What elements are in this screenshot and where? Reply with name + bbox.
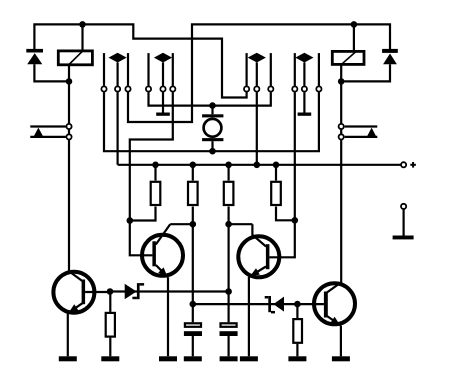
node junction dot H1 at C2 xyxy=(225,288,232,295)
relay K2 coil xyxy=(332,51,364,64)
pin terminal circle g1 middle xyxy=(115,86,120,91)
contact terminal circle left lower xyxy=(66,134,71,139)
wire left contact common down to transistor Q1 collector xyxy=(68,81,70,271)
pin terminal circle g4 left xyxy=(292,86,297,91)
resistor R4 xyxy=(271,165,295,221)
resistor R1 xyxy=(130,165,161,221)
wire diode D2 bottom to relay K2 bottom node xyxy=(341,64,390,81)
pin terminal circle g3 left xyxy=(244,86,249,91)
pin terminal circle g3 middle xyxy=(254,86,259,91)
diode D1 xyxy=(26,49,43,64)
resistor R6 xyxy=(293,304,302,356)
wire Q1 emitter to ground xyxy=(67,313,69,356)
node junction dot plus rail at pin g3-middle xyxy=(253,162,260,169)
capacitor C2 electrolytic xyxy=(220,292,238,357)
resistor R5 xyxy=(106,292,115,357)
connector group g3 pin right xyxy=(270,53,272,86)
node junction dot R1 to Q2 base line xyxy=(127,217,134,224)
pin terminal circle g4 middle xyxy=(302,86,307,91)
resistor R3 xyxy=(224,165,234,292)
node junction dot buzzer top xyxy=(209,102,216,109)
wire diode D1 bottom to relay K1 bottom node xyxy=(34,64,69,81)
wire Q4 emitter to ground xyxy=(340,326,342,357)
ground bar Q3 emitter xyxy=(240,356,258,361)
connector group g1 pin left xyxy=(103,53,105,86)
pin terminal circle g2 left xyxy=(146,86,151,91)
node junction dot at left rail x82.5 xyxy=(79,21,86,28)
pin terminal circle g2 right xyxy=(170,86,175,91)
pin terminal circle g4 right xyxy=(316,86,321,91)
node junction dot plus rail at R4 xyxy=(273,162,280,169)
zener diode D3 xyxy=(125,283,144,299)
connector group g3 pin left xyxy=(246,53,248,86)
left changeover contact lines with armature triangle xyxy=(30,127,65,137)
node junction dot relay K1 bottom xyxy=(66,78,73,85)
wire base line H2 from C1 through zener D4 to Q4 base xyxy=(193,303,324,305)
connector group g1 pin middle with diamond xyxy=(109,53,127,86)
pin terminal circle g1 right xyxy=(125,86,130,91)
termination bar under g4 xyxy=(298,113,312,116)
wire pin g2-right down around to transistor Q2 base xyxy=(130,92,173,255)
wire relay K1 bottom lead xyxy=(68,66,70,82)
relay K1 coil xyxy=(58,51,92,65)
connector group g3 pin middle with diamond xyxy=(248,53,266,86)
diode D2 xyxy=(382,49,398,64)
transistor Q3 xyxy=(238,224,279,277)
wire relay K2 bottom lead xyxy=(340,66,342,82)
wire pin g4-middle stub to termination bar xyxy=(303,92,305,112)
transistor Q2 xyxy=(142,224,183,277)
wire from pin g1-middle down to plus rail corner xyxy=(116,92,118,165)
wire Q3 emitter to ground xyxy=(248,277,250,356)
wire right contact common down to transistor Q4 collector xyxy=(340,81,342,282)
ground bar C1 xyxy=(184,356,202,361)
wire pin g2-middle stub to termination bar xyxy=(162,92,164,112)
node junction dot plus rail at R3 xyxy=(225,162,232,169)
node junction dot plus rail at R2 xyxy=(190,162,197,169)
connector group g2 pin right xyxy=(172,53,174,86)
wire base line H1 from Q1 base through zener D3 to capacitor C2 xyxy=(110,290,229,292)
connector group g1 pin right xyxy=(127,53,129,86)
wire Q3 collector to R3 xyxy=(229,223,253,225)
right changeover contact lines with armature triangle xyxy=(345,127,378,137)
wire pin g4-left down to transistor Q3 base xyxy=(269,92,294,257)
zener diode D4 xyxy=(265,296,284,313)
contact terminal circle left upper xyxy=(66,124,71,129)
wire Q2 emitter to ground xyxy=(167,277,169,356)
ground bar R5 xyxy=(101,356,119,361)
contact terminal circle right upper xyxy=(339,124,344,129)
wire from pin g1-left down and across to buzzer bottom and up to pin g4-right xyxy=(104,92,319,151)
wire relay K2 top feed xyxy=(353,24,355,50)
ground bar Q2 emitter xyxy=(159,356,177,361)
wire right top rail from pin g1-right up over to relay K2 and diode D2 xyxy=(128,24,390,122)
ground bar Q4 emitter xyxy=(332,356,350,361)
ground bar R6 xyxy=(288,356,306,361)
contact terminal circle right lower xyxy=(339,134,344,139)
connector group g4 pin middle with diamond xyxy=(295,53,313,86)
node junction dot R3 collector Q3 xyxy=(225,221,232,228)
wire Q2 collector to R2 xyxy=(170,223,193,225)
label plus sign xyxy=(410,162,416,168)
capacitor C1 electrolytic xyxy=(184,304,202,356)
terminal plus output circle xyxy=(401,162,406,167)
transistor Q1 xyxy=(53,271,110,313)
node junction dot at right rail x353.9 xyxy=(351,21,358,28)
node junction dot relay K2 bottom xyxy=(338,78,345,85)
buzzer M1 xyxy=(202,106,223,152)
connector group g2 pin middle with diamond xyxy=(154,53,172,86)
node junction dot R4 to Q3 base line xyxy=(292,217,299,224)
ground bar Q1 emitter xyxy=(59,356,77,361)
connector group g2 pin left xyxy=(147,53,149,86)
wire from pin g2-left across to pin g3-right xyxy=(149,92,271,105)
pin terminal circle g2 middle xyxy=(160,86,165,91)
wire relay K1 top feed xyxy=(81,24,83,50)
node junction dot H2 at C1 xyxy=(190,301,197,308)
wire pin g3-middle down to plus rail xyxy=(256,92,258,165)
node junction dot H2 at R6 xyxy=(294,301,301,308)
node junction dot Q1 base xyxy=(107,288,114,295)
transistor Q4 xyxy=(314,283,355,326)
pin terminal circle g1 left xyxy=(101,86,106,91)
ground bar C2 xyxy=(220,356,238,361)
wire left top rail from diode D1 top over relay K1 stepping down to contact pin g3-left xyxy=(34,24,246,97)
wire plus supply rail xyxy=(118,164,401,166)
pin terminal circle g3 right xyxy=(268,86,273,91)
connector group g4 pin left xyxy=(294,53,296,86)
node junction dot plus rail at R1 xyxy=(152,162,159,169)
node junction dot R2 collector Q2 xyxy=(190,221,197,228)
termination bar under g2 xyxy=(156,113,170,116)
terminal earth circle with stem and bar xyxy=(393,204,414,240)
node junction dot buzzer bottom xyxy=(209,148,216,155)
resistor R2 xyxy=(188,165,198,304)
connector group g4 pin right xyxy=(318,53,320,86)
